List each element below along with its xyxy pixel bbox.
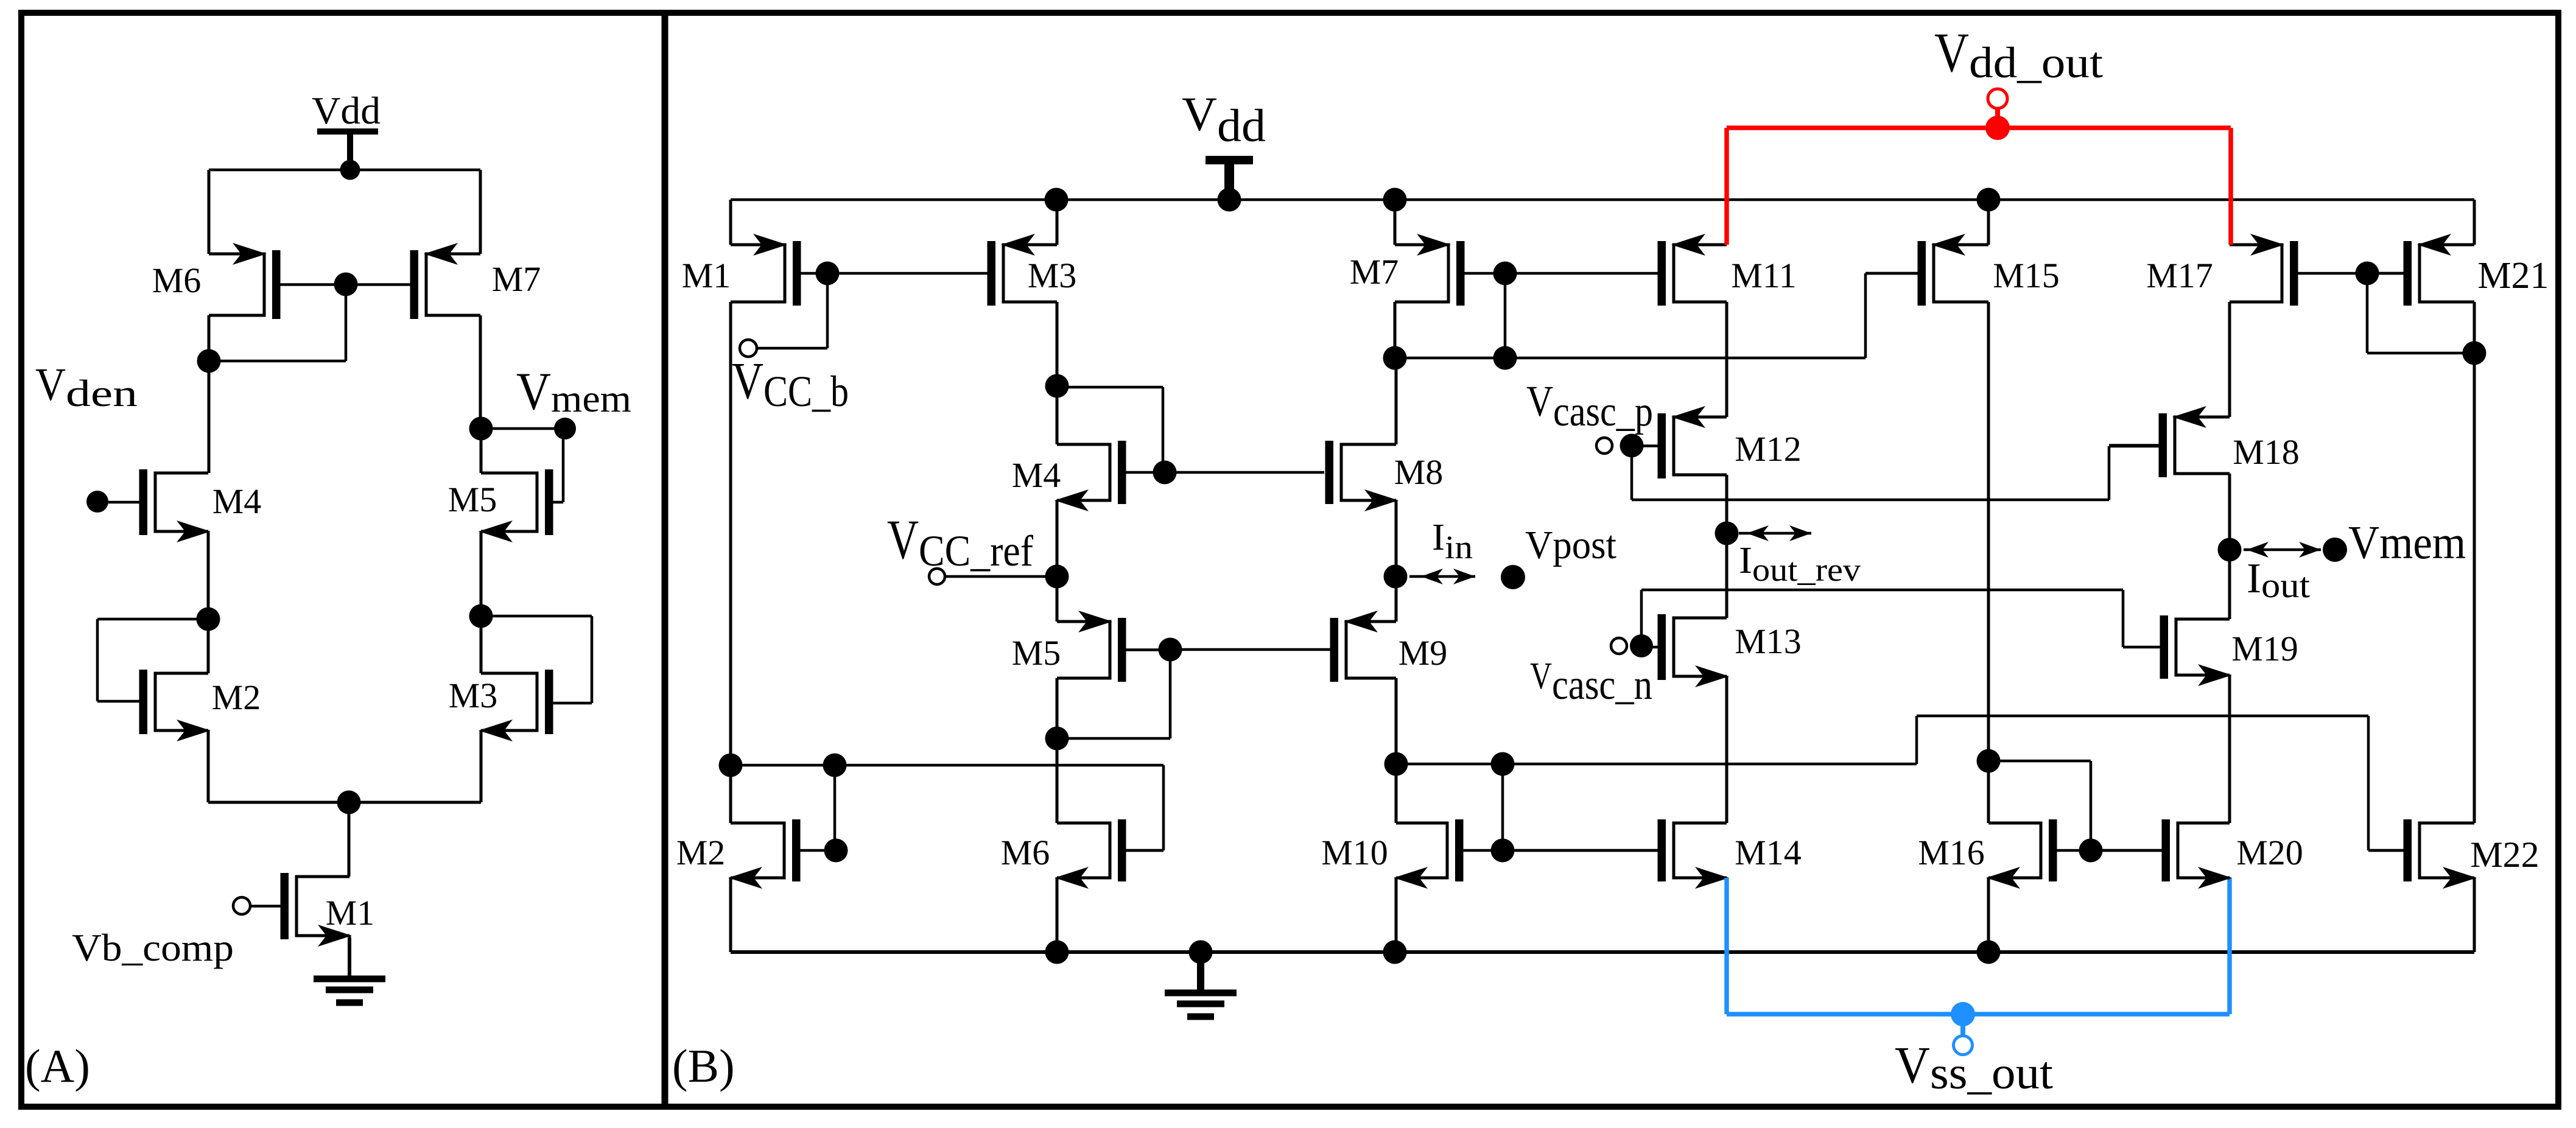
svg-text:M17: M17	[2146, 256, 2213, 295]
svg-text:M10: M10	[1321, 833, 1388, 872]
svg-text:mem: mem	[551, 377, 631, 420]
svg-text:M2: M2	[676, 833, 726, 872]
svg-text:casc_p: casc_p	[1553, 388, 1653, 435]
svg-text:Vb_comp: Vb_comp	[72, 927, 234, 969]
svg-text:V: V	[35, 359, 66, 410]
svg-text:V: V	[1530, 656, 1552, 697]
svg-text:M7: M7	[492, 259, 541, 299]
svg-text:den: den	[66, 373, 138, 415]
svg-text:in: in	[1445, 529, 1473, 566]
svg-text:I: I	[1739, 540, 1752, 581]
svg-text:M9: M9	[1399, 633, 1448, 673]
svg-text:Vpost: Vpost	[1525, 523, 1616, 567]
svg-text:V: V	[1182, 88, 1217, 141]
svg-text:casc_n: casc_n	[1552, 662, 1652, 709]
svg-text:M1: M1	[682, 256, 731, 295]
svg-text:dd: dd	[1217, 100, 1266, 152]
svg-text:out: out	[2261, 566, 2310, 605]
svg-text:V: V	[1895, 1035, 1930, 1094]
svg-text:out_rev: out_rev	[1752, 552, 1861, 588]
svg-text:M1: M1	[326, 893, 375, 933]
svg-text:M8: M8	[1394, 452, 1444, 492]
svg-text:M22: M22	[2470, 835, 2539, 875]
svg-text:M4: M4	[1012, 455, 1061, 495]
svg-text:M3: M3	[449, 676, 498, 715]
svg-text:M13: M13	[1735, 622, 1802, 661]
svg-text:M16: M16	[1918, 833, 1985, 872]
svg-text:M4: M4	[212, 482, 262, 521]
svg-text:M14: M14	[1735, 833, 1802, 872]
svg-text:ss_out: ss_out	[1930, 1048, 2053, 1099]
svg-text:CC_ref: CC_ref	[919, 527, 1033, 575]
svg-text:dd_out: dd_out	[1969, 38, 2103, 87]
svg-text:M2: M2	[212, 678, 261, 717]
svg-text:M21: M21	[2477, 255, 2549, 296]
svg-text:M12: M12	[1735, 429, 1802, 469]
svg-text:M18: M18	[2233, 432, 2300, 472]
svg-text:V: V	[887, 508, 919, 570]
svg-text:Vmem: Vmem	[2348, 516, 2466, 569]
svg-text:M6: M6	[152, 261, 202, 300]
svg-text:Vdd: Vdd	[312, 89, 381, 132]
svg-text:(A): (A)	[25, 1040, 90, 1092]
svg-text:M5: M5	[1012, 633, 1061, 673]
svg-text:I: I	[2247, 555, 2261, 602]
svg-text:M5: M5	[448, 480, 497, 519]
svg-text:M6: M6	[1001, 833, 1050, 872]
svg-text:M20: M20	[2236, 833, 2303, 872]
svg-text:CC_b: CC_b	[763, 367, 849, 416]
svg-text:V: V	[516, 362, 551, 421]
svg-text:V: V	[732, 351, 763, 410]
svg-text:M15: M15	[1993, 256, 2060, 295]
svg-text:M19: M19	[2231, 629, 2298, 668]
svg-text:M3: M3	[1028, 256, 1077, 295]
svg-text:M11: M11	[1731, 256, 1796, 295]
svg-text:M7: M7	[1350, 252, 1399, 292]
svg-text:V: V	[1526, 377, 1553, 426]
svg-text:V: V	[1934, 21, 1969, 83]
svg-text:(B): (B)	[672, 1040, 735, 1092]
svg-text:I: I	[1432, 517, 1445, 558]
